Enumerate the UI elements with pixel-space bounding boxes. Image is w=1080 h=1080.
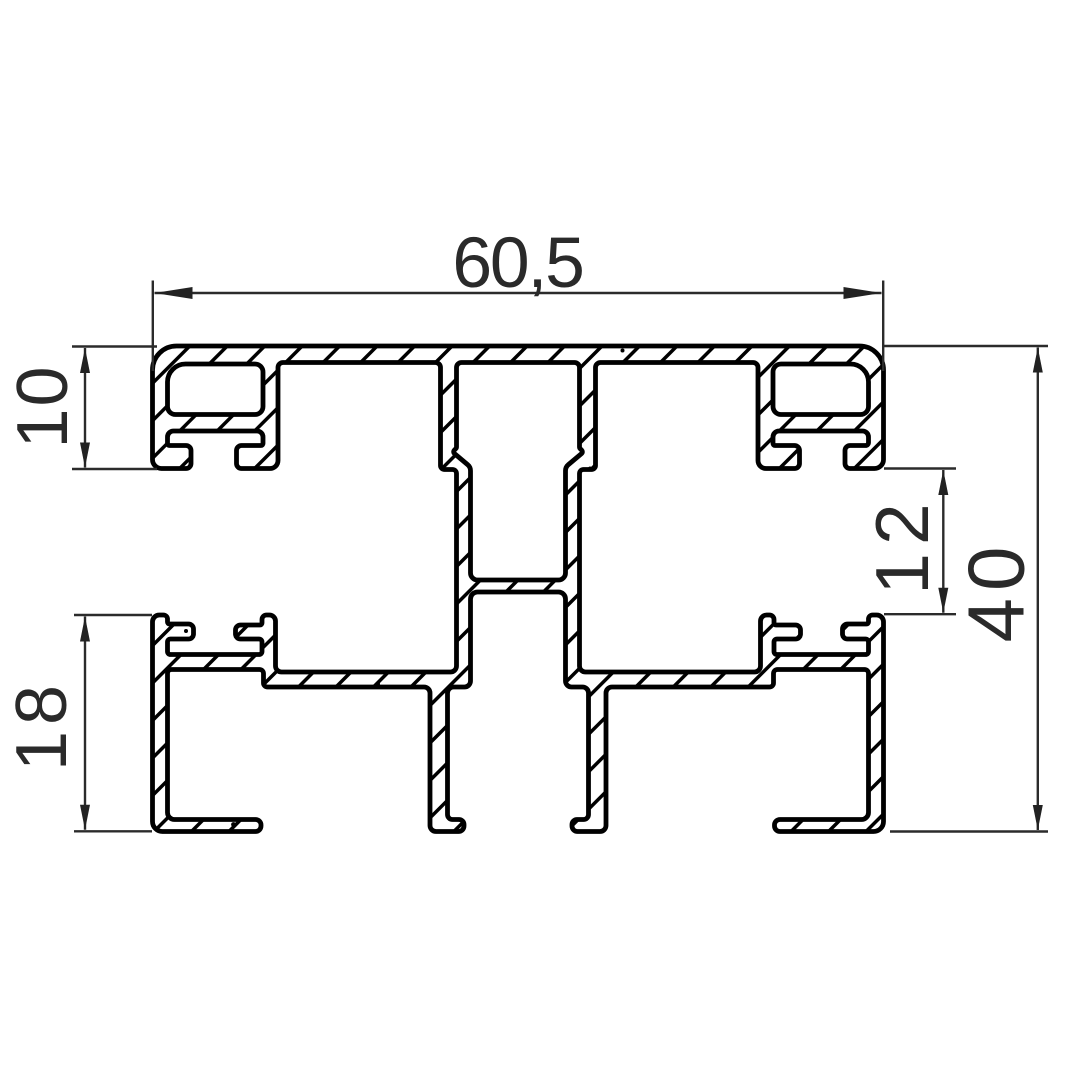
svg-text:10: 10 [3, 364, 83, 448]
svg-text:12: 12 [860, 495, 944, 594]
svg-text:40: 40 [952, 540, 1041, 643]
svg-text:18: 18 [2, 679, 82, 771]
svg-text:60,5: 60,5 [452, 223, 582, 303]
